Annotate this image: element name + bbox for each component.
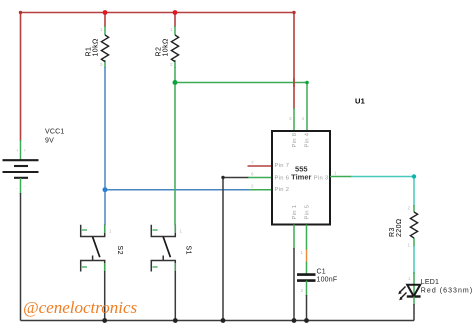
switch S1 [151, 225, 175, 272]
svg-text:@ceneloctronics: @ceneloctronics [23, 298, 138, 317]
wire: black battery bottom to ground rail [20, 193, 22, 321]
node: green junction at R2 branch [173, 80, 178, 85]
svg-text:+: + [16, 148, 19, 153]
wire: green net R2 bottom, branch to pin4, down to S1 [175, 67, 307, 225]
node: ground junction dots [102, 318, 107, 323]
label R3 220 [389, 218, 403, 237]
svg-text:Pin 3: Pin 3 [314, 176, 329, 182]
svg-text:Pin 6: Pin 6 [275, 176, 290, 182]
wire: S1 bottom to ground [174, 272, 176, 321]
node: red junction at R1 top [103, 10, 108, 15]
wire: S2 bottom to ground [104, 272, 106, 321]
resistor R3 [413, 205, 415, 247]
svg-text:S1: S1 [185, 246, 192, 256]
resistor R2 [174, 26, 176, 68]
wire: pin5 to C1 [306, 225, 308, 251]
wire: C1 bottom to ground [306, 281, 308, 296]
switch S2 [81, 225, 105, 272]
svg-text:9V: 9V [45, 138, 54, 145]
node: green corner above pin4 [305, 81, 309, 85]
LED emission arrows [398, 287, 406, 301]
svg-text:+: + [24, 148, 27, 153]
wire: green stub into pin2 over blue [249, 189, 272, 191]
svg-text:220Ω: 220Ω [396, 218, 403, 237]
resistor R1 [104, 26, 106, 68]
svg-text:R2: R2 [156, 47, 163, 57]
wire: red stub into pin7 [248, 165, 273, 167]
node: red corner at battery top [19, 11, 22, 14]
wire: green stub battery top [20, 140, 22, 160]
svg-text:Pin 8: Pin 8 [292, 133, 298, 148]
svg-text:Pin 4: Pin 4 [305, 132, 311, 147]
pin numbers (tiny gray digits) [16, 27, 411, 293]
wire: green stub LED top [413, 272, 415, 296]
capacitor C1 [297, 275, 316, 281]
svg-text:10kΩ: 10kΩ [163, 38, 170, 56]
IC U1 555 timer box [272, 131, 330, 225]
svg-text:R3: R3 [389, 227, 396, 237]
svg-text:Pin 5: Pin 5 [305, 205, 311, 220]
wire: black net pin6 down to ground [223, 177, 249, 321]
wire: teal net pin3 to R3 [330, 176, 352, 178]
wire: green stub battery bottom [20, 178, 22, 194]
label R2 10k [156, 38, 170, 56]
node: red corner above pin8 [292, 11, 295, 14]
wire: VCC top rail red from battery to IC pin8 column [21, 12, 295, 141]
label R1 10k [86, 38, 100, 56]
battery VCC1 symbol [3, 160, 39, 178]
svg-text:U1: U1 [355, 97, 365, 106]
svg-text:10kΩ: 10kΩ [93, 38, 100, 56]
wire: green stub into pin6 [248, 177, 272, 179]
svg-text:Pin 2: Pin 2 [275, 187, 290, 193]
pin labels [275, 132, 329, 219]
svg-text:100nF: 100nF [317, 277, 338, 284]
svg-text:C1: C1 [317, 269, 326, 276]
node: blue junction [103, 187, 108, 192]
wire: red overdraw at crossing [293, 78, 295, 87]
wire: blue net R1 bottom to pin2 and S2 [105, 67, 249, 225]
svg-text:Red (633nm): Red (633nm) [421, 288, 473, 295]
LED1 symbol [407, 285, 421, 297]
svg-text:S2: S2 [116, 246, 123, 256]
svg-text:R1: R1 [86, 47, 93, 57]
wire: ground bottom rail [21, 320, 415, 322]
node: red junction at R2 top [173, 10, 178, 15]
wire: teal between R3 and LED [413, 246, 415, 274]
wire: green stub pin8 [293, 108, 295, 131]
wire: pin1 to ground [293, 225, 295, 250]
wire: green stub LED bottom, black to rail [413, 297, 415, 306]
svg-text:VCC1: VCC1 [45, 129, 64, 136]
node: teal corner [412, 174, 416, 178]
svg-text:Timer: Timer [291, 173, 311, 182]
svg-text:Pin 1: Pin 1 [292, 205, 298, 220]
svg-text:LED1: LED1 [421, 279, 439, 286]
svg-text:Pin 7: Pin 7 [275, 163, 290, 169]
